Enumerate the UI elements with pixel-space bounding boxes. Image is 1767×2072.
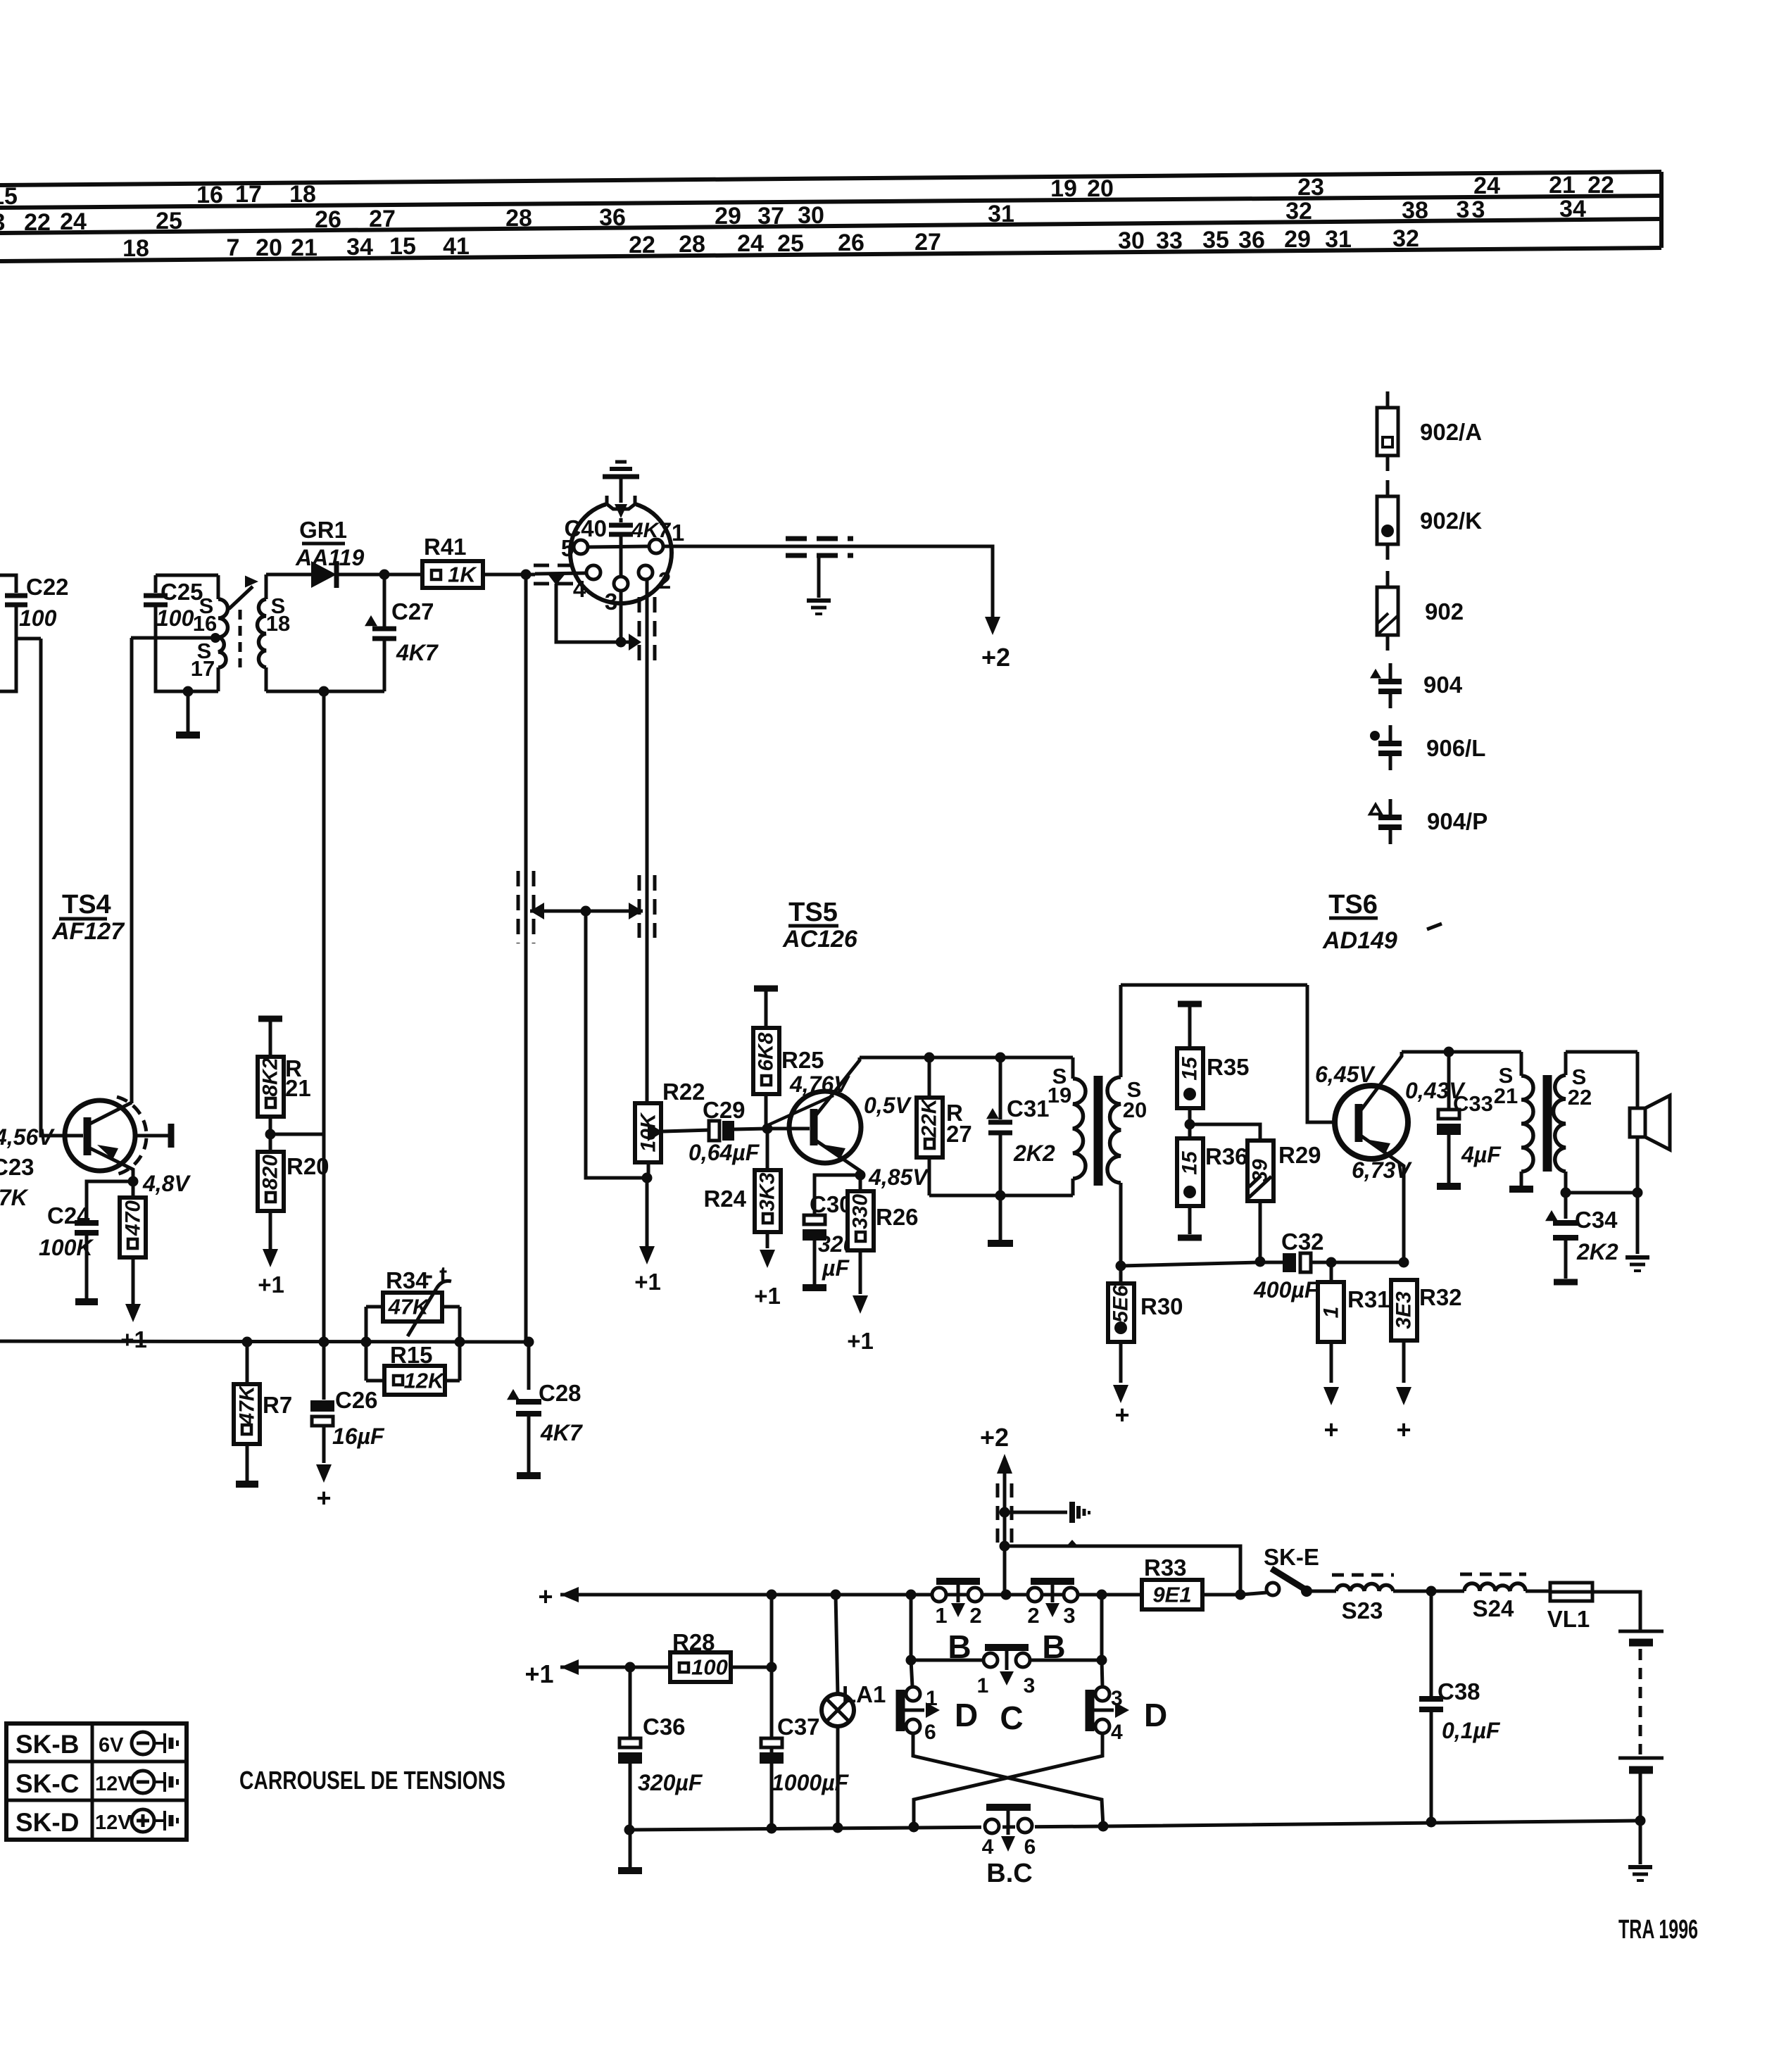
- svg-text:100: 100: [156, 605, 194, 631]
- svg-text:+1: +1: [847, 1328, 874, 1354]
- svg-text:47K: 47K: [236, 1384, 259, 1425]
- svg-text:R22: R22: [662, 1079, 705, 1105]
- svg-text:15: 15: [389, 233, 416, 260]
- svg-text:R41: R41: [424, 534, 467, 560]
- svg-text:902/K: 902/K: [1420, 508, 1482, 534]
- svg-text:C26: C26: [335, 1387, 378, 1413]
- svg-text:27: 27: [914, 229, 941, 256]
- svg-text:6: 6: [924, 1721, 936, 1744]
- svg-text:4,8V: 4,8V: [142, 1171, 191, 1196]
- svg-text:C22: C22: [26, 574, 69, 600]
- svg-text:5: 5: [561, 535, 574, 561]
- svg-text:C33: C33: [1453, 1091, 1493, 1116]
- svg-text:36: 36: [599, 204, 626, 231]
- svg-text:R34: R34: [386, 1267, 429, 1293]
- svg-text:4,85V: 4,85V: [868, 1164, 929, 1190]
- svg-text:32: 32: [1285, 198, 1312, 225]
- svg-text:R35: R35: [1207, 1054, 1250, 1080]
- svg-text:24: 24: [60, 208, 87, 235]
- svg-text:D: D: [1144, 1697, 1167, 1733]
- svg-text:C25: C25: [161, 579, 203, 605]
- svg-text:C31: C31: [1007, 1095, 1050, 1122]
- svg-text:31: 31: [988, 201, 1014, 227]
- svg-text:9E1: 9E1: [1152, 1583, 1191, 1607]
- svg-text:- t: - t: [425, 1262, 447, 1288]
- svg-text:0,1µF: 0,1µF: [1442, 1718, 1501, 1743]
- svg-text:C32: C32: [1281, 1229, 1324, 1255]
- svg-text:330: 330: [849, 1194, 872, 1229]
- svg-text:C28: C28: [539, 1380, 581, 1406]
- svg-text:3E3: 3E3: [1392, 1291, 1416, 1329]
- svg-text:24: 24: [737, 230, 764, 257]
- svg-text:20: 20: [1087, 175, 1114, 202]
- svg-text:16µF: 16µF: [332, 1424, 385, 1449]
- svg-text:1: 1: [977, 1674, 989, 1697]
- svg-text:C29: C29: [703, 1097, 746, 1123]
- svg-text:C24: C24: [47, 1203, 90, 1229]
- svg-text:+1: +1: [524, 1659, 553, 1688]
- svg-text:AF127: AF127: [51, 918, 125, 945]
- svg-text:36: 36: [1238, 227, 1265, 253]
- svg-text:µF: µF: [822, 1255, 850, 1281]
- svg-text:32: 32: [1392, 225, 1419, 252]
- svg-text:35: 35: [1202, 227, 1229, 253]
- svg-text:27: 27: [946, 1121, 972, 1147]
- svg-text:TRA 1996: TRA 1996: [1618, 1915, 1698, 1945]
- svg-text:+1: +1: [258, 1272, 284, 1298]
- svg-text:R31: R31: [1347, 1286, 1390, 1312]
- svg-text:16: 16: [193, 611, 217, 636]
- svg-text:C36: C36: [643, 1714, 686, 1740]
- svg-text:3K3: 3K3: [756, 1172, 779, 1211]
- svg-text:29: 29: [1284, 226, 1311, 253]
- svg-text:18: 18: [266, 611, 290, 636]
- svg-text:R30: R30: [1140, 1293, 1183, 1319]
- svg-text:3: 3: [0, 209, 5, 236]
- svg-text:4µF: 4µF: [1461, 1142, 1502, 1167]
- svg-text:+: +: [1323, 1415, 1338, 1444]
- svg-text:22: 22: [24, 209, 51, 236]
- svg-text:12V: 12V: [95, 1773, 132, 1795]
- svg-text:100K: 100K: [39, 1235, 94, 1260]
- svg-text:30: 30: [1118, 227, 1145, 254]
- svg-text:22: 22: [1587, 172, 1614, 199]
- svg-text:R7: R7: [263, 1392, 292, 1418]
- svg-text:21: 21: [1549, 172, 1576, 199]
- svg-text:904: 904: [1423, 672, 1463, 698]
- svg-text:21: 21: [285, 1075, 311, 1101]
- svg-text:30: 30: [798, 202, 824, 229]
- svg-text:12K: 12K: [404, 1369, 446, 1393]
- svg-text:SK-D: SK-D: [15, 1808, 79, 1837]
- svg-text:C34: C34: [1575, 1207, 1618, 1233]
- svg-text:23: 23: [1297, 174, 1324, 201]
- svg-text:C: C: [1000, 1700, 1023, 1736]
- svg-text:5E6: 5E6: [1109, 1285, 1133, 1323]
- svg-text:+: +: [316, 1483, 331, 1512]
- svg-text:470: 470: [122, 1200, 145, 1236]
- svg-text:2: 2: [658, 567, 671, 594]
- svg-text:4: 4: [982, 1835, 994, 1859]
- svg-text:37: 37: [757, 203, 784, 230]
- svg-text:16: 16: [196, 182, 223, 208]
- svg-text:100: 100: [19, 605, 57, 631]
- svg-text:+1: +1: [754, 1283, 781, 1309]
- svg-text:0,5V: 0,5V: [864, 1093, 912, 1118]
- svg-text:1: 1: [672, 520, 684, 546]
- svg-text:2: 2: [1027, 1603, 1039, 1628]
- svg-text:24: 24: [1473, 172, 1500, 199]
- svg-text:C27: C27: [391, 598, 434, 624]
- svg-text:C37: C37: [777, 1714, 820, 1740]
- svg-text:29: 29: [715, 203, 741, 230]
- svg-text:2K2: 2K2: [1013, 1141, 1055, 1166]
- svg-text:15: 15: [1178, 1150, 1202, 1175]
- svg-text:34: 34: [346, 234, 373, 260]
- svg-text:AC126: AC126: [782, 926, 858, 953]
- svg-text:21: 21: [1494, 1084, 1518, 1108]
- svg-text:+1: +1: [634, 1269, 661, 1295]
- svg-text:19: 19: [1048, 1083, 1071, 1107]
- svg-text:6K8: 6K8: [755, 1032, 778, 1071]
- svg-text:6,73V: 6,73V: [1352, 1157, 1412, 1183]
- svg-text:6: 6: [1024, 1835, 1036, 1859]
- svg-text:VL1: VL1: [1547, 1606, 1590, 1632]
- svg-text:R33: R33: [1144, 1555, 1187, 1581]
- svg-text:4: 4: [573, 576, 586, 602]
- svg-text:B.C: B.C: [986, 1859, 1032, 1888]
- svg-text:27: 27: [369, 206, 396, 232]
- svg-text:S24: S24: [1473, 1595, 1514, 1621]
- svg-text:41: 41: [443, 233, 470, 260]
- svg-text:SK-C: SK-C: [15, 1769, 79, 1798]
- svg-text:18: 18: [122, 235, 149, 262]
- svg-text:28: 28: [679, 231, 705, 258]
- svg-text:R36: R36: [1205, 1143, 1248, 1169]
- svg-text:100: 100: [691, 1655, 728, 1680]
- svg-text:6V: 6V: [99, 1734, 124, 1757]
- svg-text:38: 38: [1402, 197, 1428, 224]
- svg-text:SK-E: SK-E: [1264, 1544, 1319, 1570]
- svg-text:28: 28: [505, 205, 532, 232]
- svg-text:S23: S23: [1342, 1597, 1383, 1624]
- svg-text:902/A: 902/A: [1420, 419, 1482, 445]
- svg-text:34: 34: [1559, 196, 1586, 222]
- svg-text:25: 25: [156, 208, 182, 234]
- svg-text:47K: 47K: [0, 1185, 30, 1210]
- svg-text:1K: 1K: [448, 563, 477, 587]
- svg-text:15: 15: [0, 183, 18, 210]
- svg-text:7: 7: [227, 234, 240, 261]
- svg-text:R28: R28: [672, 1629, 715, 1655]
- svg-text:12V: 12V: [95, 1812, 132, 1834]
- svg-text:4: 4: [1111, 1721, 1123, 1744]
- svg-text:LA1: LA1: [842, 1681, 886, 1707]
- svg-text:D: D: [955, 1697, 978, 1733]
- svg-text:22: 22: [629, 232, 655, 258]
- svg-text:TS6: TS6: [1328, 890, 1378, 919]
- svg-text:26: 26: [838, 230, 864, 256]
- svg-text:+: +: [1114, 1400, 1129, 1429]
- svg-text:3: 3: [1457, 196, 1470, 223]
- svg-text:400µF: 400µF: [1253, 1277, 1319, 1302]
- svg-text:GR1: GR1: [299, 517, 347, 543]
- svg-text:18: 18: [289, 181, 316, 208]
- svg-text:R32: R32: [1419, 1284, 1462, 1310]
- svg-text:4K7: 4K7: [396, 640, 439, 665]
- svg-text:+1: +1: [120, 1326, 147, 1352]
- svg-text:820: 820: [259, 1155, 282, 1190]
- svg-text:4K7: 4K7: [631, 519, 671, 542]
- svg-text:17: 17: [191, 656, 215, 681]
- svg-text:C23: C23: [0, 1154, 34, 1180]
- svg-text:20: 20: [256, 234, 282, 261]
- svg-text:4,56V: 4,56V: [0, 1124, 55, 1150]
- svg-text:320µF: 320µF: [638, 1770, 703, 1795]
- svg-text:R29: R29: [1278, 1142, 1321, 1168]
- svg-text:1: 1: [935, 1603, 947, 1628]
- svg-text:1: 1: [1320, 1307, 1343, 1319]
- svg-text:2: 2: [969, 1603, 981, 1628]
- svg-text:904/P: 904/P: [1427, 808, 1488, 834]
- svg-text:2K2: 2K2: [1576, 1239, 1618, 1264]
- svg-text:+2: +2: [981, 643, 1010, 672]
- svg-text:902: 902: [1425, 598, 1464, 624]
- svg-text:0,64µF: 0,64µF: [688, 1140, 760, 1165]
- svg-text:33: 33: [1156, 227, 1183, 254]
- svg-text:CARROUSEL DE TENSIONS: CARROUSEL DE TENSIONS: [239, 1766, 505, 1795]
- svg-text:TS4: TS4: [62, 890, 111, 919]
- svg-text:6,45V: 6,45V: [1315, 1062, 1376, 1087]
- svg-text:C38: C38: [1438, 1678, 1480, 1704]
- svg-text:19: 19: [1050, 175, 1077, 202]
- svg-text:R24: R24: [703, 1186, 746, 1212]
- svg-text:1: 1: [926, 1687, 938, 1710]
- svg-text:R25: R25: [781, 1047, 824, 1073]
- svg-text:3: 3: [1024, 1674, 1036, 1697]
- svg-text:25: 25: [777, 230, 804, 257]
- svg-text:20: 20: [1123, 1098, 1147, 1122]
- svg-text:+2: +2: [980, 1423, 1009, 1452]
- svg-text:26: 26: [315, 206, 341, 233]
- svg-text:R15: R15: [390, 1342, 433, 1368]
- svg-text:R26: R26: [876, 1204, 919, 1230]
- svg-text:22K: 22K: [918, 1097, 941, 1138]
- svg-text:21: 21: [291, 234, 317, 261]
- svg-text:3: 3: [1472, 196, 1485, 223]
- svg-text:+: +: [538, 1582, 553, 1611]
- svg-text:22: 22: [1568, 1085, 1592, 1110]
- svg-text:3: 3: [1063, 1603, 1075, 1628]
- svg-text:+: +: [1396, 1415, 1411, 1444]
- svg-text:15: 15: [1178, 1056, 1202, 1081]
- svg-text:4K7: 4K7: [540, 1420, 584, 1445]
- svg-text:TS5: TS5: [788, 898, 838, 927]
- svg-text:8K2: 8K2: [259, 1057, 282, 1096]
- svg-text:17: 17: [235, 181, 262, 208]
- svg-text:31: 31: [1325, 226, 1352, 253]
- svg-text:AA119: AA119: [295, 545, 364, 570]
- svg-text:SK-B: SK-B: [15, 1730, 79, 1759]
- svg-text:906/L: 906/L: [1426, 735, 1485, 761]
- svg-text:AD149: AD149: [1322, 927, 1397, 954]
- svg-text:3: 3: [1111, 1687, 1123, 1710]
- svg-text:3: 3: [605, 589, 617, 615]
